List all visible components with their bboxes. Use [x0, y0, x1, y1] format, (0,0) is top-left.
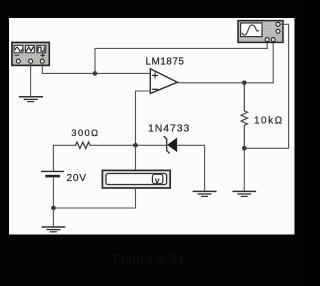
scope side terminal 2 [276, 29, 280, 33]
scope side terminal 1 [276, 22, 280, 26]
ground bottom-left [42, 227, 64, 232]
svg-text:300Ω: 300Ω [71, 128, 99, 139]
triangle icon [26, 47, 33, 51]
wire: scope ground loop to bottom of load [244, 24, 288, 148]
svg-text:10kΩ: 10kΩ [254, 115, 284, 126]
oscilloscope XSC1 body [238, 21, 283, 43]
minus mark [15, 54, 18, 56]
svg-text:1N4733: 1N4733 [148, 123, 190, 135]
scope screen sine trace [242, 25, 258, 35]
terminal - [40, 59, 44, 63]
node C junction on output [242, 81, 247, 86]
svg-text:20V: 20V [67, 173, 87, 184]
square-wave icon [38, 47, 44, 51]
sine icon [15, 47, 22, 51]
scope bottom terminal A [265, 38, 269, 42]
svg-text:LM1875: LM1875 [146, 56, 185, 67]
node D junction below resistor [242, 146, 247, 151]
wire: output up to scope channel B [272, 41, 274, 83]
reference rail wire with 300 ohm and zener [53, 145, 204, 191]
wire: node A up and right to scope channel A [95, 41, 267, 73]
wire: output of op-amp to the right [177, 82, 273, 84]
node B junction [133, 143, 138, 148]
function generator XFG1 body [12, 42, 49, 65]
wire: node B down to voltmeter [135, 145, 137, 170]
resistor R1 300 ohm zigzag [76, 142, 91, 148]
node A junction [93, 71, 98, 76]
zener diode D1 1N4733 [164, 137, 176, 153]
wire: node A to op-amp + input [95, 72, 150, 74]
resistor R2 10k vertical zigzag [241, 83, 247, 149]
wire: op-amp - input stub [136, 90, 151, 92]
ground under zener [193, 191, 215, 196]
plus mark [41, 54, 44, 57]
battery V1 20V [42, 145, 64, 208]
node E junction battery-ground [51, 206, 56, 211]
white schematic sheet [9, 18, 295, 235]
wire: FG output down then right to node A [42, 63, 95, 73]
svg-text:Figura 4-51: Figura 4-51 [113, 253, 185, 267]
wire: voltmeter down to bottom rail [135, 188, 137, 208]
voltmeter U2 body [102, 170, 170, 188]
bottom rail wire [53, 207, 135, 209]
ground under function generator [20, 97, 43, 102]
scope bottom terminal B [271, 38, 275, 42]
wire: - input down to node B [135, 91, 137, 145]
wire: node E down to ground [52, 208, 54, 227]
wire: node D down to ground [243, 148, 245, 191]
ground under 10k resistor [233, 191, 255, 196]
terminal common [29, 59, 33, 63]
terminal + [16, 59, 20, 63]
op-amp U1 LM1875 triangle [150, 69, 177, 94]
minus sign inside op-amp [153, 88, 158, 90]
svg-text:v: v [155, 175, 160, 185]
plus sign inside op-amp [153, 73, 158, 78]
wire: FG common terminal down to ground [30, 63, 32, 96]
